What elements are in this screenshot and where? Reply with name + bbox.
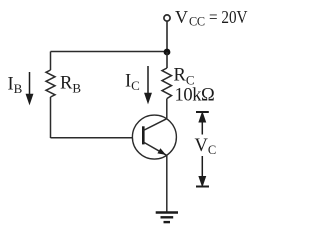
- label Vcc = 20V: [175, 7, 248, 29]
- resistor RC zigzag: [162, 68, 172, 99]
- wire junction to RC: [166, 52, 168, 68]
- svg-text:= 20V: = 20V: [209, 7, 248, 27]
- svg-text:CC: CC: [189, 15, 205, 29]
- wire left vertical lower: [50, 97, 52, 138]
- svg-text:10kΩ: 10kΩ: [175, 86, 215, 106]
- arrow IC (current direction down): [145, 66, 151, 102]
- wire RC to collector: [166, 99, 168, 120]
- wire top horizontal: [51, 51, 168, 53]
- junction node: [164, 49, 171, 56]
- wire emitter to ground: [166, 155, 168, 212]
- terminal Vcc (open circle): [164, 15, 170, 21]
- wire terminal to junction: [166, 21, 168, 52]
- wire base horizontal: [51, 137, 133, 139]
- transistor base bar: [142, 126, 145, 144]
- Vc up arrow: [199, 113, 205, 134]
- arrow IB (current direction down): [27, 72, 33, 103]
- Vc dimension bottom bar: [196, 186, 209, 188]
- transistor Q1 circle: [132, 115, 176, 159]
- wire left vertical upper: [50, 52, 52, 71]
- Vc down arrow: [199, 156, 205, 185]
- ground symbol: [156, 213, 178, 223]
- svg-text:V: V: [175, 7, 188, 27]
- transistor emitter lead: [143, 142, 166, 155]
- emitter arrowhead: [157, 148, 166, 155]
- Vc dimension top bar: [196, 111, 209, 113]
- resistor RB zigzag: [46, 70, 55, 97]
- transistor collector lead: [143, 119, 167, 131]
